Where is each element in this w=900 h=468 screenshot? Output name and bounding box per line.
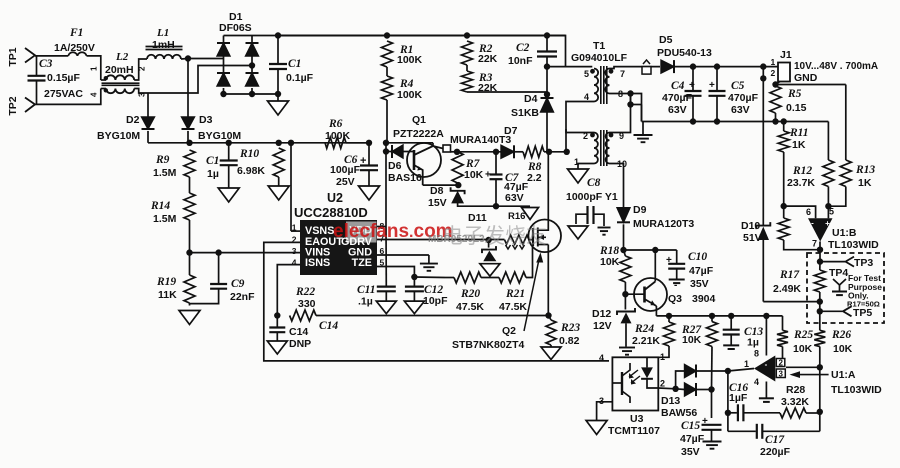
- svg-text:275VAC: 275VAC: [44, 88, 83, 100]
- svg-text:-: -: [674, 280, 677, 291]
- svg-text:C1: C1: [288, 58, 301, 70]
- svg-text:1mH: 1mH: [152, 39, 175, 51]
- svg-text:TP3: TP3: [854, 257, 873, 269]
- svg-text:BYG10M: BYG10M: [198, 130, 241, 142]
- svg-text:电子发烧友: 电子发烧友: [442, 225, 547, 248]
- svg-text:C4: C4: [671, 80, 685, 92]
- svg-text:R21: R21: [505, 288, 525, 300]
- svg-text:4: 4: [599, 353, 604, 363]
- svg-text:1A/250V: 1A/250V: [54, 42, 95, 54]
- svg-text:C14: C14: [319, 320, 338, 332]
- svg-text:1: 1: [771, 57, 776, 67]
- svg-text:Q1: Q1: [412, 114, 426, 126]
- svg-text:R5: R5: [787, 88, 802, 100]
- svg-text:330: 330: [298, 298, 316, 310]
- svg-text:0.15µF: 0.15µF: [47, 72, 80, 84]
- svg-text:D6: D6: [388, 160, 402, 172]
- svg-text:1µ: 1µ: [747, 337, 759, 349]
- svg-text:R14: R14: [150, 200, 170, 212]
- svg-text:L2: L2: [115, 51, 129, 63]
- svg-text:2.49K: 2.49K: [773, 283, 801, 295]
- svg-text:10pF: 10pF: [423, 295, 448, 307]
- svg-text:2.2: 2.2: [527, 172, 542, 184]
- svg-text:UCC28810D: UCC28810D: [294, 205, 368, 220]
- svg-text:R23: R23: [560, 322, 580, 334]
- svg-text:U1:B: U1:B: [832, 227, 857, 239]
- svg-text:100K: 100K: [397, 89, 423, 101]
- svg-text:R9: R9: [155, 154, 170, 166]
- svg-text:10K: 10K: [833, 343, 853, 355]
- svg-text:1µ: 1µ: [207, 168, 219, 180]
- svg-text:5: 5: [584, 69, 589, 79]
- svg-text:5: 5: [829, 207, 834, 217]
- svg-text:C10: C10: [688, 251, 707, 263]
- svg-text:D8: D8: [430, 185, 444, 197]
- svg-text:D13: D13: [661, 395, 680, 407]
- svg-text:100K: 100K: [397, 54, 423, 66]
- svg-text:+: +: [762, 373, 767, 382]
- svg-text:D5: D5: [659, 34, 673, 46]
- svg-text:U2: U2: [327, 191, 343, 205]
- svg-text:R16: R16: [508, 211, 525, 222]
- svg-text:12V: 12V: [593, 320, 612, 332]
- svg-text:3.32K: 3.32K: [781, 396, 809, 408]
- svg-text:47µF: 47µF: [689, 265, 714, 277]
- svg-text:BAS16: BAS16: [388, 172, 422, 184]
- svg-text:6: 6: [806, 207, 811, 217]
- svg-text:7: 7: [620, 69, 625, 79]
- svg-text:DF06S: DF06S: [219, 22, 252, 34]
- svg-text:C9: C9: [231, 278, 245, 290]
- svg-text:C8: C8: [587, 177, 601, 189]
- svg-text:10V...48V . 700mA: 10V...48V . 700mA: [794, 61, 878, 72]
- svg-text:R17=50Ω: R17=50Ω: [847, 300, 880, 309]
- svg-text:100µF: 100µF: [330, 164, 361, 176]
- svg-text:15V: 15V: [428, 197, 447, 209]
- svg-text:10K: 10K: [682, 334, 702, 346]
- svg-text:R26: R26: [831, 329, 851, 341]
- svg-text:L1: L1: [156, 27, 169, 39]
- svg-text:TCMT1107: TCMT1107: [608, 425, 660, 437]
- svg-text:C5: C5: [731, 80, 745, 92]
- svg-text:C1: C1: [206, 155, 219, 167]
- svg-text:D11: D11: [468, 212, 487, 224]
- svg-text:TP2: TP2: [7, 96, 19, 115]
- svg-text:0.82: 0.82: [559, 335, 580, 347]
- svg-text:1: 1: [744, 359, 749, 369]
- svg-text:R24: R24: [634, 323, 654, 335]
- svg-text:20mH: 20mH: [105, 64, 134, 76]
- svg-text:0.15: 0.15: [786, 102, 807, 114]
- svg-text:D9: D9: [633, 204, 647, 216]
- svg-text:2: 2: [779, 359, 784, 368]
- svg-text:TP5: TP5: [853, 307, 872, 319]
- svg-text:1K: 1K: [858, 177, 872, 189]
- svg-text:63V: 63V: [731, 104, 750, 116]
- svg-text:PZT2222A: PZT2222A: [393, 128, 444, 140]
- svg-text:22K: 22K: [478, 53, 498, 65]
- svg-text:BAW56: BAW56: [661, 407, 697, 419]
- svg-text:PDU540-13: PDU540-13: [657, 47, 712, 59]
- svg-text:R10: R10: [239, 148, 259, 160]
- svg-text:22nF: 22nF: [230, 291, 255, 303]
- svg-text:10K: 10K: [464, 169, 484, 181]
- svg-text:1: 1: [660, 352, 665, 362]
- svg-text:MURA140T3: MURA140T3: [450, 134, 511, 146]
- svg-text:1µF: 1µF: [729, 392, 748, 404]
- svg-text:1K: 1K: [792, 139, 806, 151]
- svg-text:470µF: 470µF: [728, 92, 759, 104]
- svg-text:.1µ: .1µ: [358, 296, 373, 308]
- svg-text:GND: GND: [794, 72, 818, 84]
- svg-text:R19: R19: [156, 276, 176, 288]
- svg-text:11K: 11K: [158, 289, 177, 301]
- svg-text:TL103WID: TL103WID: [831, 384, 882, 396]
- svg-text:ISNS: ISNS: [305, 257, 330, 269]
- svg-text:1.5M: 1.5M: [153, 167, 177, 179]
- svg-text:BYG10M: BYG10M: [97, 130, 140, 142]
- svg-text:R28: R28: [786, 384, 805, 396]
- svg-text:23.7K: 23.7K: [787, 177, 815, 189]
- svg-text:4: 4: [90, 92, 99, 97]
- svg-text:10K: 10K: [600, 256, 620, 268]
- svg-text:D12: D12: [592, 308, 611, 320]
- svg-text:1: 1: [292, 223, 297, 233]
- svg-text:1.5M: 1.5M: [153, 213, 177, 225]
- svg-text:4: 4: [584, 92, 589, 102]
- svg-text:63V: 63V: [668, 104, 687, 116]
- svg-text:10K: 10K: [793, 343, 813, 355]
- svg-text:4: 4: [754, 377, 759, 387]
- svg-text:D2: D2: [126, 114, 140, 126]
- svg-text:C2: C2: [516, 42, 530, 54]
- svg-text:U1:A: U1:A: [831, 369, 856, 381]
- svg-text:TZE: TZE: [352, 257, 372, 269]
- svg-text:6.98K: 6.98K: [237, 165, 265, 177]
- svg-text:47µF: 47µF: [680, 433, 705, 445]
- svg-text:100K: 100K: [325, 130, 351, 142]
- svg-text:7: 7: [812, 239, 817, 249]
- svg-text:TP1: TP1: [7, 47, 19, 66]
- svg-text:STB7NK80ZT4: STB7NK80ZT4: [452, 339, 525, 351]
- svg-text:Q3: Q3: [668, 293, 682, 305]
- svg-text:J1: J1: [780, 49, 792, 61]
- svg-text:220µF: 220µF: [760, 446, 791, 458]
- svg-text:U3: U3: [630, 413, 644, 425]
- svg-text:R22: R22: [295, 286, 315, 298]
- svg-text:1000pF Y1: 1000pF Y1: [566, 191, 618, 203]
- svg-text:F1: F1: [69, 27, 83, 39]
- svg-text:Q2: Q2: [502, 325, 516, 337]
- svg-text:2: 2: [771, 68, 776, 78]
- svg-text:T1: T1: [593, 40, 605, 52]
- svg-text:R13: R13: [855, 164, 875, 176]
- svg-text:4: 4: [292, 258, 297, 268]
- svg-text:25V: 25V: [336, 176, 355, 188]
- svg-text:1: 1: [90, 66, 99, 71]
- svg-text:R11: R11: [789, 127, 809, 139]
- svg-text:+: +: [709, 80, 715, 91]
- svg-text:C14: C14: [289, 326, 308, 338]
- svg-text:+: +: [825, 219, 830, 228]
- svg-text:-: -: [765, 360, 768, 369]
- svg-text:C17: C17: [765, 434, 785, 446]
- svg-text:8: 8: [754, 349, 759, 359]
- svg-text:S1KB: S1KB: [511, 107, 539, 119]
- svg-text:2: 2: [660, 379, 665, 389]
- svg-text:R25: R25: [793, 329, 813, 341]
- svg-text:+: +: [689, 80, 695, 91]
- svg-text:0.1µF: 0.1µF: [286, 72, 314, 84]
- svg-text:-: -: [811, 219, 814, 228]
- svg-text:D3: D3: [199, 114, 213, 126]
- svg-text:C15: C15: [681, 420, 700, 432]
- svg-text:D4: D4: [524, 93, 538, 105]
- svg-text:G094010LF: G094010LF: [571, 52, 628, 64]
- svg-text:47.5K: 47.5K: [456, 301, 484, 313]
- svg-text:TL103WID: TL103WID: [828, 239, 879, 251]
- svg-text:C11: C11: [357, 284, 376, 296]
- svg-text:35V: 35V: [681, 446, 700, 458]
- svg-text:63V: 63V: [505, 192, 524, 204]
- svg-text:47.5K: 47.5K: [499, 301, 527, 313]
- svg-text:C3: C3: [39, 58, 53, 70]
- svg-text:470µF: 470µF: [662, 92, 693, 104]
- svg-text:35V: 35V: [690, 278, 709, 290]
- svg-text:TP4: TP4: [829, 267, 848, 279]
- svg-text:3904: 3904: [692, 293, 716, 305]
- svg-text:MURA120T3: MURA120T3: [633, 218, 694, 230]
- svg-text:2.21K: 2.21K: [632, 335, 660, 347]
- svg-text:3: 3: [779, 370, 784, 379]
- svg-text:DNP: DNP: [289, 338, 311, 350]
- svg-text:R6: R6: [328, 118, 343, 130]
- svg-text:10nF: 10nF: [508, 55, 533, 67]
- svg-text:R20: R20: [460, 288, 480, 300]
- svg-text:R17: R17: [779, 269, 800, 281]
- svg-text:3: 3: [292, 246, 297, 256]
- svg-text:R12: R12: [792, 165, 812, 177]
- svg-text:22K: 22K: [478, 82, 498, 94]
